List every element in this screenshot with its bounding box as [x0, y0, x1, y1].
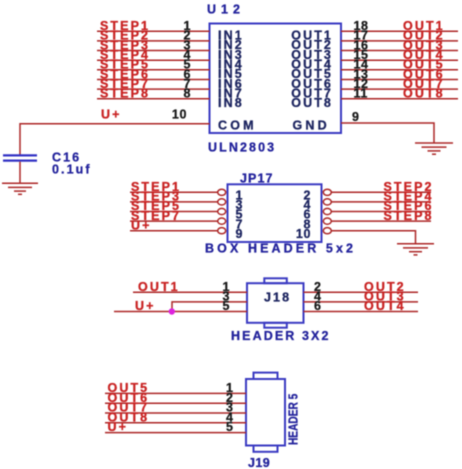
wire STEP8 to U12 pin 8: [97, 98, 210, 100]
wire STEP1 to JP17 pin 1: [130, 191, 218, 193]
svg-text:U+: U+: [108, 420, 129, 434]
wire J18 pin 3 to U+ net: [172, 302, 247, 312]
wire STEP7 to JP17 pin 7: [130, 220, 218, 222]
ground symbol at JP17 pin 10: [397, 244, 434, 255]
svg-text:U12: U12: [207, 3, 245, 17]
wire STEP2 to U12 pin 2: [97, 40, 210, 42]
wire U+ net to U12 pin 10 COM: [20, 124, 210, 155]
connector J19 HEADER 5: [105, 373, 301, 469]
junction dot on U+ net: [169, 308, 175, 314]
wire JP17 pin 6 to STEP6: [331, 211, 431, 213]
pin circle JP17 pin 8: [323, 218, 331, 224]
pin circle JP17 pin 4: [323, 199, 331, 205]
svg-text:5: 5: [226, 420, 234, 434]
wire J18 pin 6 to OUT4: [304, 311, 419, 313]
ground symbol below C16: [2, 183, 38, 194]
capacitor top plate: [3, 154, 37, 156]
wire STEP4 to U12 pin 4: [97, 59, 210, 61]
pin circle JP17 pin 9: [218, 228, 226, 234]
wire capacitor to ground: [19, 162, 21, 184]
svg-text:U+: U+: [101, 108, 122, 122]
wire U12 pin 17 to OUT2: [341, 40, 458, 42]
svg-text:COM: COM: [218, 119, 257, 133]
wire U12 pin 16 to OUT3: [341, 50, 458, 52]
pin circle JP17 pin 10: [323, 228, 331, 234]
wire STEP6 to U12 pin 6: [97, 79, 210, 81]
svg-text:10: 10: [172, 108, 187, 122]
svg-text:OUT8: OUT8: [403, 87, 445, 101]
svg-text:10: 10: [296, 227, 311, 241]
J18 body box: [247, 283, 304, 323]
svg-text:STEP8: STEP8: [384, 209, 434, 223]
svg-text:HEADER 3X2: HEADER 3X2: [231, 329, 331, 343]
wire J18 pin 2 to OUT2: [304, 291, 419, 293]
wire JP17 pin 10 to ground: [331, 231, 415, 244]
svg-text:BOX HEADER 5x2: BOX HEADER 5x2: [205, 242, 356, 256]
IC U12 ULN2803: [20, 3, 458, 155]
capacitor C16: [2, 151, 92, 195]
U12 body box: [210, 24, 342, 134]
wire U12 pin 11 to OUT8: [341, 98, 458, 100]
wire OUT8 to J19 pin 4: [105, 422, 246, 424]
svg-text:J18: J18: [264, 291, 291, 305]
J19 bottom tab: [254, 446, 278, 452]
svg-text:9: 9: [352, 110, 360, 124]
pin circle JP17 pin 6: [323, 208, 331, 214]
svg-text:6: 6: [314, 299, 322, 313]
wire STEP3 to U12 pin 3: [97, 50, 210, 52]
svg-text:HEADER 5: HEADER 5: [286, 393, 300, 445]
wire STEP1 to U12 pin 1: [97, 30, 210, 32]
pin circle JP17 pin 5: [218, 208, 226, 214]
svg-text:OUT1: OUT1: [138, 280, 180, 294]
svg-text:OUT8: OUT8: [291, 96, 333, 110]
pin circle JP17 pin 3: [218, 199, 226, 205]
JP17 body box: [228, 184, 322, 242]
wire U12 pin 18 to OUT1: [341, 30, 458, 32]
wire STEP5 to JP17 pin 5: [130, 211, 218, 213]
wire U+ to JP17 pin 9: [130, 230, 218, 232]
wire OUT6 to J19 pin 2: [105, 402, 246, 404]
svg-text:IN8: IN8: [218, 96, 244, 110]
pin circle JP17 pin 7: [218, 218, 226, 224]
wire OUT7 to J19 pin 3: [105, 412, 246, 414]
wire U12 pin 9 to ground: [341, 123, 434, 143]
svg-text:5: 5: [222, 299, 230, 313]
wire U+ to J19 pin 5: [105, 432, 246, 434]
svg-text:U+: U+: [135, 299, 156, 313]
wire U12 pin 13 to OUT6: [341, 79, 458, 81]
svg-text:U+: U+: [131, 218, 152, 232]
J18 bottom tab: [264, 323, 287, 328]
wire J18 pin 4 to OUT3: [304, 301, 419, 303]
svg-text:8: 8: [183, 87, 191, 101]
wire STEP5 to U12 pin 5: [97, 69, 210, 71]
svg-text:STEP8: STEP8: [100, 87, 150, 101]
svg-text:0.1uf: 0.1uf: [52, 163, 92, 177]
ground symbol at U12 pin 9: [415, 143, 453, 154]
wire U12 pin 14 to OUT5: [341, 69, 458, 71]
connector JP17 BOX HEADER 5x2: [130, 172, 434, 256]
wire STEP3 to JP17 pin 3: [130, 201, 218, 203]
svg-text:ULN2803: ULN2803: [208, 141, 276, 155]
svg-text:9: 9: [236, 227, 244, 241]
capacitor bottom plate: [3, 160, 37, 162]
pin circle JP17 pin 2: [323, 189, 331, 195]
wire U12 pin 12 to OUT7: [341, 88, 458, 90]
wire JP17 pin 2 to STEP2: [331, 191, 431, 193]
svg-text:11: 11: [354, 87, 368, 101]
wire JP17 pin 8 to STEP8: [331, 220, 431, 222]
J19 body box: [246, 379, 285, 446]
wire U+ to J18 pin 5: [114, 311, 247, 313]
wire JP17 pin 4 to STEP4: [331, 201, 431, 203]
svg-text:J19: J19: [248, 456, 270, 469]
pin circle JP17 pin 1: [218, 189, 226, 195]
wire U12 pin 15 to OUT4: [341, 59, 458, 61]
wire STEP7 to U12 pin 7: [97, 88, 210, 90]
J18 top tab: [264, 278, 287, 283]
svg-text:GND: GND: [293, 119, 330, 133]
wire OUT5 to J19 pin 1: [105, 392, 246, 394]
wire OUT1 to J18 pin 1: [133, 291, 247, 293]
svg-text:OUT4: OUT4: [364, 299, 406, 313]
connector J18 HEADER 3X2: [114, 278, 418, 343]
J19 top tab: [254, 373, 278, 379]
